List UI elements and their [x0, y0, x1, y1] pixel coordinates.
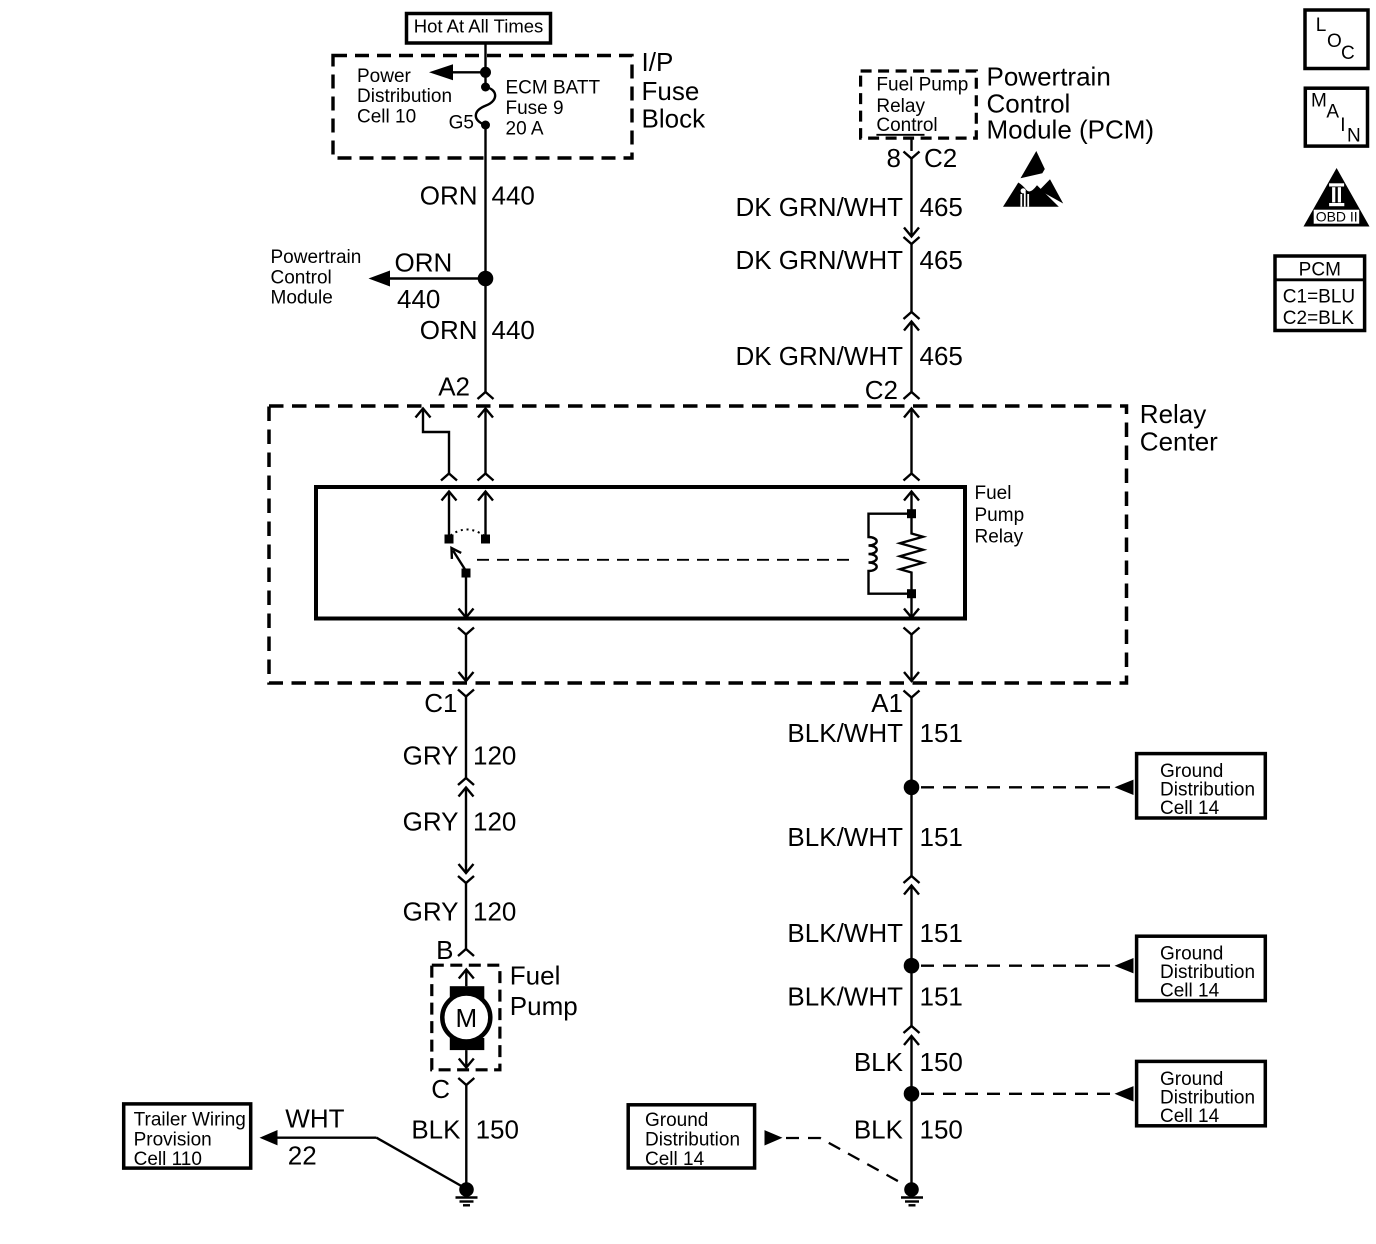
- svg-text:A1: A1: [871, 688, 903, 718]
- svg-text:Fuse: Fuse: [642, 76, 700, 106]
- svg-text:Hot At All Times: Hot At All Times: [414, 16, 544, 37]
- svg-text:Pump: Pump: [510, 991, 578, 1021]
- svg-text:Relay: Relay: [975, 527, 1024, 548]
- svg-text:BLK: BLK: [854, 1115, 904, 1145]
- svg-text:Relay: Relay: [876, 96, 925, 117]
- svg-text:Module: Module: [271, 288, 333, 309]
- svg-text:A: A: [1326, 102, 1339, 123]
- svg-text:Powertrain: Powertrain: [271, 247, 362, 268]
- svg-text:Fuel: Fuel: [975, 483, 1012, 504]
- svg-text:Fuel: Fuel: [510, 960, 561, 990]
- svg-text:Center: Center: [1140, 427, 1218, 457]
- svg-text:ECM BATT: ECM BATT: [506, 78, 601, 99]
- svg-text:A2: A2: [438, 371, 470, 401]
- svg-text:Powertrain: Powertrain: [987, 62, 1111, 92]
- svg-text:151: 151: [920, 981, 963, 1011]
- svg-text:Cell 14: Cell 14: [1160, 798, 1220, 819]
- svg-text:Relay: Relay: [1140, 399, 1206, 429]
- svg-text:BLK: BLK: [411, 1114, 461, 1144]
- svg-text:M: M: [455, 1003, 477, 1033]
- svg-text:C1=BLU: C1=BLU: [1283, 287, 1355, 308]
- svg-text:Distribution: Distribution: [645, 1130, 740, 1151]
- svg-text:C: C: [1341, 43, 1355, 64]
- svg-text:B: B: [436, 935, 453, 965]
- svg-text:GRY: GRY: [403, 807, 459, 837]
- svg-text:22: 22: [288, 1141, 317, 1171]
- svg-text:8: 8: [887, 143, 901, 173]
- svg-text:Distribution: Distribution: [357, 86, 452, 107]
- svg-text:Provision: Provision: [134, 1130, 212, 1151]
- svg-text:WHT: WHT: [285, 1104, 344, 1134]
- svg-text:I: I: [1340, 115, 1345, 136]
- svg-text:Pump: Pump: [975, 505, 1025, 526]
- svg-text:465: 465: [920, 341, 963, 371]
- svg-text:150: 150: [476, 1114, 519, 1144]
- svg-text:Cell 14: Cell 14: [1160, 1106, 1220, 1127]
- svg-text:Trailer Wiring: Trailer Wiring: [134, 1110, 246, 1131]
- svg-text:BLK: BLK: [854, 1047, 904, 1077]
- svg-text:ORN: ORN: [395, 248, 453, 278]
- svg-text:DK GRN/WHT: DK GRN/WHT: [735, 341, 903, 371]
- svg-text:Cell 14: Cell 14: [1160, 981, 1220, 1002]
- svg-text:ORN: ORN: [420, 315, 478, 345]
- svg-text:Fuel Pump: Fuel Pump: [876, 74, 968, 95]
- svg-text:Block: Block: [642, 104, 707, 134]
- svg-text:150: 150: [920, 1047, 963, 1077]
- svg-text:ORN: ORN: [420, 181, 478, 211]
- svg-text:120: 120: [473, 741, 516, 771]
- svg-text:151: 151: [920, 718, 963, 748]
- svg-text:C1: C1: [424, 688, 457, 718]
- svg-text:Control: Control: [271, 267, 332, 288]
- svg-text:Module (PCM): Module (PCM): [987, 115, 1155, 145]
- svg-text:GRY: GRY: [403, 741, 459, 771]
- svg-text:DK GRN/WHT: DK GRN/WHT: [735, 192, 903, 222]
- svg-text:120: 120: [473, 897, 516, 927]
- svg-text:C2=BLK: C2=BLK: [1283, 308, 1355, 329]
- svg-text:GRY: GRY: [403, 897, 459, 927]
- svg-text:L: L: [1316, 15, 1327, 36]
- svg-text:Fuse 9: Fuse 9: [506, 98, 564, 119]
- svg-text:BLK/WHT: BLK/WHT: [787, 918, 903, 948]
- svg-text:Ground: Ground: [645, 1110, 708, 1131]
- svg-text:440: 440: [397, 284, 440, 314]
- svg-text:DK GRN/WHT: DK GRN/WHT: [735, 245, 903, 275]
- svg-text:BLK/WHT: BLK/WHT: [787, 822, 903, 852]
- svg-text:O: O: [1327, 31, 1342, 52]
- svg-text:Cell 14: Cell 14: [645, 1149, 705, 1170]
- svg-text:Control: Control: [876, 115, 937, 136]
- svg-text:C2: C2: [865, 375, 898, 405]
- svg-text:Cell 10: Cell 10: [357, 107, 416, 128]
- svg-text:BLK/WHT: BLK/WHT: [787, 718, 903, 748]
- svg-text:C2: C2: [924, 143, 957, 173]
- svg-text:N: N: [1347, 126, 1361, 147]
- svg-text:20 A: 20 A: [506, 118, 544, 139]
- svg-text:465: 465: [920, 192, 963, 222]
- svg-text:I/P: I/P: [642, 47, 674, 77]
- svg-text:M: M: [1311, 91, 1327, 112]
- svg-text:440: 440: [492, 181, 535, 211]
- svg-text:C: C: [431, 1074, 450, 1104]
- svg-text:465: 465: [920, 245, 963, 275]
- svg-text:Power: Power: [357, 66, 412, 87]
- svg-text:G5: G5: [449, 113, 474, 134]
- svg-text:OBD II: OBD II: [1316, 208, 1358, 224]
- svg-text:440: 440: [492, 315, 535, 345]
- svg-text:PCM: PCM: [1299, 259, 1341, 280]
- svg-text:BLK/WHT: BLK/WHT: [787, 981, 903, 1011]
- svg-text:120: 120: [473, 807, 516, 837]
- svg-text:Cell 110: Cell 110: [134, 1149, 202, 1170]
- svg-text:151: 151: [920, 822, 963, 852]
- svg-text:150: 150: [920, 1115, 963, 1145]
- svg-text:151: 151: [920, 918, 963, 948]
